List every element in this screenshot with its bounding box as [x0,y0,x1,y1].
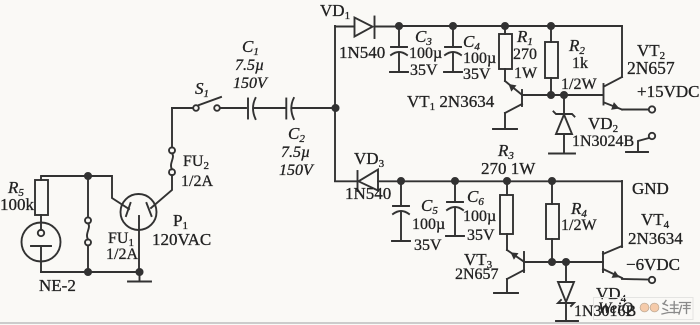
neon lamp NE-2 [22,223,61,273]
capacitor C4 [445,26,461,71]
wire C1 to C2 [254,107,286,109]
svg-text:35V: 35V [410,62,438,79]
svg-text:+15VDC: +15VDC [637,82,699,101]
capacitor C2 [286,98,294,119]
switch S1 [172,97,221,111]
junction FU1 bottom [85,269,91,275]
ground mains [128,272,151,282]
resistor R5 [35,176,48,230]
svg-text:P1: P1 [173,211,188,232]
scan artifact bottom edge [0,322,700,324]
ground GND terminal [626,151,648,153]
svg-text:100µ: 100µ [409,45,442,62]
ground C6 [446,235,464,237]
svg-text:150V: 150V [233,75,269,92]
wire left bottom rail [41,271,140,273]
resistor R1 [499,26,512,81]
svg-text:VT1 2N3634: VT1 2N3634 [407,92,495,113]
zener diode VD4 [558,262,574,320]
svg-text:−6VDC: −6VDC [626,255,680,274]
wire FU2 to plug right prong [151,175,172,208]
svg-text:R1: R1 [516,27,533,48]
svg-text:1N3024B: 1N3024B [572,133,634,150]
svg-text:2N657: 2N657 [455,266,499,283]
svg-text:1/2A: 1/2A [181,173,213,190]
junction VD2 top [561,92,567,98]
svg-text:150V: 150V [279,162,315,179]
capacitor C6 [447,181,463,235]
svg-text:120VAC: 120VAC [152,230,211,249]
transistor VT3 [507,250,524,292]
junction C5 [398,178,404,184]
svg-text:270: 270 [513,46,537,63]
wire S1 to C1 [220,107,246,109]
terminal GND output [638,133,655,151]
junction R4 [549,178,555,184]
svg-text:100k: 100k [0,195,35,214]
ground VT1 collector [493,128,517,130]
diode VD1 [335,17,399,39]
fuse FU2 [169,108,175,175]
junction mains ground [136,269,142,275]
svg-text:R2: R2 [568,36,585,57]
resistor R2 [545,26,558,95]
wire input vertical [334,26,336,181]
zener diode VD2 [554,95,575,153]
junction R4 bottom [549,259,555,265]
wire left top rail [42,175,111,177]
resistor R3 [500,181,513,250]
svg-text:1/2W: 1/2W [561,217,597,234]
transistor VT2 [604,77,623,110]
junction input node [332,105,338,111]
ground VD2 [549,153,575,155]
svg-text:7.5µ: 7.5µ [281,144,310,161]
capacitor C3 [391,26,407,71]
svg-text:35V: 35V [463,66,491,83]
fuse FU1 [85,176,91,272]
wire raw positive rail [399,25,622,27]
diode VD3 [358,170,379,192]
svg-text:C5: C5 [421,196,438,217]
junction C3 [396,23,402,29]
svg-text:1k: 1k [572,55,588,72]
svg-text:1/2W: 1/2W [561,76,597,93]
svg-text:VD2: VD2 [588,114,618,135]
junction R3 [504,178,510,184]
svg-text:35V: 35V [414,237,442,254]
wire VT2 emitter to +15VDC terminal [622,109,649,111]
svg-text:VD1: VD1 [320,1,350,22]
capacitor C5 [393,181,409,240]
resistor R4 [546,181,559,262]
wire plug center pin [138,216,140,272]
ground C4 [444,71,462,73]
svg-text:7.5µ: 7.5µ [235,57,264,74]
svg-text:S1: S1 [195,79,209,100]
wire negative base node [524,261,603,263]
wire raw negative rail [335,180,622,182]
ground C5 [392,240,410,242]
wire rail corner to VT2 collector [621,27,623,78]
svg-text:VD3: VD3 [354,149,385,170]
terminal -6VDC [649,277,655,283]
watermark [594,298,694,320]
junction FU1 top [85,173,91,179]
wire C2 to input node [293,107,336,109]
svg-text:WeiQ: WeiQ [598,300,633,317]
svg-text:NE-2: NE-2 [39,276,76,295]
wire VT4 emitter to -6VDC terminal [622,278,649,281]
junction R1 [502,23,508,29]
wire positive base node [522,94,603,96]
terminal +15VDC [649,106,655,112]
svg-text:100µ: 100µ [463,208,496,225]
svg-text:FU2: FU2 [183,153,209,172]
svg-text:35V: 35V [467,227,495,244]
wire rail to plug left prong [112,176,129,209]
ground C3 [390,71,408,73]
junction R2 [548,23,554,29]
wire negative rail corner to VT4 collector [621,181,623,247]
ground VD4 [556,320,578,322]
svg-text:100µ: 100µ [463,50,496,67]
svg-text:C6: C6 [467,187,484,208]
junction R2 bottom [548,92,554,98]
svg-text:1/2A: 1/2A [106,246,138,263]
junction C6 [452,178,458,184]
junction C4 [450,23,456,29]
svg-text:100µ: 100µ [412,216,445,233]
svg-text:1N540: 1N540 [345,184,391,203]
svg-text:C1: C1 [242,37,259,58]
svg-text:C2: C2 [288,124,305,145]
transistor VT4 [603,246,622,278]
plug P1 [121,194,157,230]
svg-text:2N3634: 2N3634 [628,229,683,248]
junction VD4 top [563,259,569,265]
capacitor C1 [248,98,256,119]
svg-text:VT4: VT4 [641,210,670,231]
transistor VT1 [505,81,522,129]
ground VT3 collector [494,292,518,294]
svg-text:270 1W: 270 1W [481,159,536,178]
svg-text:2N657: 2N657 [627,58,675,78]
svg-text:1N540: 1N540 [339,43,385,62]
svg-text:GND: GND [632,179,669,198]
svg-text:1W: 1W [514,65,538,82]
